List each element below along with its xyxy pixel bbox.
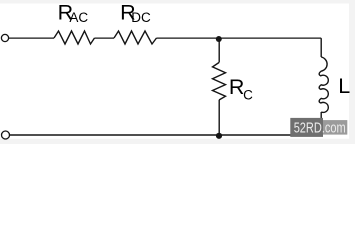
- wire: between R_AC and R_DC: [95, 37, 115, 39]
- wire: inductor bottom lead: [320, 112, 322, 135]
- wire: R_C branch bottom lead: [218, 100, 220, 135]
- wire: R_C branch top lead: [218, 38, 220, 63]
- svg-text:DC: DC: [131, 10, 151, 25]
- wire: top-left terminal to R_AC: [9, 37, 54, 39]
- svg-text:C: C: [243, 87, 253, 102]
- svg-text:AC: AC: [69, 10, 88, 25]
- wire: top-right corner down to inductor: [320, 38, 322, 57]
- node junction dot bottom: [216, 133, 222, 139]
- node junction dot top: [216, 36, 222, 42]
- svg-text:R: R: [229, 75, 245, 99]
- svg-text:52RD.com: 52RD.com: [294, 121, 346, 137]
- wire: bottom rail: [9, 134, 321, 136]
- terminal (bottom-left input): [2, 131, 10, 139]
- page margin strip top: [0, 0, 355, 4]
- inductor L coil (4 turns): [319, 57, 328, 112]
- resistor R_DC zigzag: [114, 31, 157, 44]
- page margin strip right: [349, 0, 355, 144]
- terminal (top-left input): [1, 34, 8, 41]
- watermark light box: [323, 120, 347, 135]
- wire: R_DC to top-right corner: [157, 37, 322, 39]
- page margin strip bottom: [0, 139, 355, 144]
- watermark dark box: [290, 118, 323, 137]
- svg-text:L: L: [338, 74, 350, 98]
- resistor R_C zigzag (vertical): [213, 63, 226, 101]
- resistor R_AC zigzag: [54, 31, 95, 44]
